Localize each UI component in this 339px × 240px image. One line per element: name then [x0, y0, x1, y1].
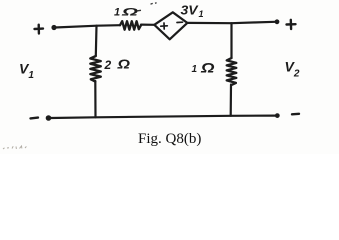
svg-text:1: 1 [192, 64, 198, 75]
svg-text:2: 2 [104, 58, 112, 72]
svg-text:1: 1 [114, 6, 120, 18]
svg-text:Ω: Ω [120, 6, 138, 18]
svg-text:3V: 3V [181, 3, 199, 18]
svg-text:Ω: Ω [200, 60, 215, 76]
svg-text:1: 1 [199, 9, 204, 19]
svg-text:Fig. Q8(b): Fig. Q8(b) [138, 131, 201, 147]
svg-text:Ω: Ω [116, 58, 130, 72]
